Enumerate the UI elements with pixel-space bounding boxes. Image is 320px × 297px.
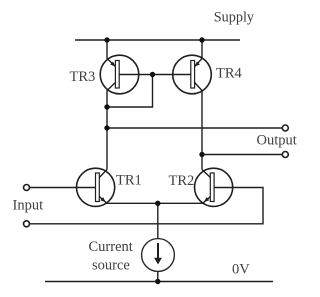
current source bbox=[142, 239, 175, 272]
transistor TR1 bbox=[77, 168, 115, 206]
wire TR2 base loop to input 2 bbox=[30, 188, 263, 224]
terminal output 2 bbox=[282, 152, 288, 158]
wire emitter rail bbox=[107, 202, 203, 204]
terminal input 1 bbox=[24, 185, 30, 191]
terminals bbox=[24, 125, 289, 227]
svg-text:source: source bbox=[92, 258, 130, 274]
svg-text:0V: 0V bbox=[232, 262, 250, 278]
wire emitter junction to current source bbox=[157, 203, 159, 238]
wire current source to 0V bbox=[157, 271, 159, 281]
svg-text:TR2: TR2 bbox=[169, 173, 195, 189]
wire TR3 collector down left vertical bbox=[107, 83, 115, 170]
wire base line TR3-TR4 bbox=[119, 74, 191, 76]
node mirror link bbox=[104, 104, 109, 109]
transistor TR3 bbox=[100, 55, 139, 94]
node output1 tap bbox=[104, 125, 109, 130]
wire output 2 bbox=[202, 154, 282, 156]
wire TR4 collector down right vertical bbox=[195, 83, 202, 170]
wire TR1 emitter diagonal bbox=[99, 197, 107, 204]
terminal output 1 bbox=[282, 125, 288, 131]
svg-text:TR3: TR3 bbox=[70, 69, 96, 85]
wire TR1 collector diagonal bbox=[99, 170, 107, 178]
wire TR4 emitter to supply bbox=[195, 40, 202, 67]
wire TR2 emitter diagonal bbox=[203, 197, 211, 204]
wire TR2 collector diagonal bbox=[202, 170, 210, 178]
wire TR3 emitter to supply bbox=[107, 40, 115, 67]
transistor TR4 bbox=[173, 55, 212, 94]
transistor TR2 bbox=[195, 168, 233, 206]
node emitter junction bbox=[155, 201, 160, 206]
svg-text:Input: Input bbox=[13, 197, 44, 213]
node 0V junction bbox=[155, 279, 160, 284]
node base link bbox=[150, 72, 155, 77]
0V rail bbox=[45, 281, 273, 283]
node supply-TR4 bbox=[199, 37, 204, 42]
supply rail bbox=[75, 39, 240, 41]
svg-text:Output: Output bbox=[257, 132, 297, 148]
svg-text:TR1: TR1 bbox=[116, 173, 142, 189]
svg-text:Supply: Supply bbox=[214, 9, 255, 25]
svg-text:Current: Current bbox=[89, 239, 133, 255]
node supply-TR3 bbox=[104, 37, 109, 42]
wire TR1 base to input bbox=[30, 187, 96, 189]
terminal input 2 bbox=[24, 221, 30, 227]
svg-text:TR4: TR4 bbox=[216, 66, 243, 82]
wire mirror base-collector link bbox=[107, 75, 153, 108]
node output2 tap bbox=[199, 152, 204, 157]
wire output 1 bbox=[107, 127, 282, 129]
